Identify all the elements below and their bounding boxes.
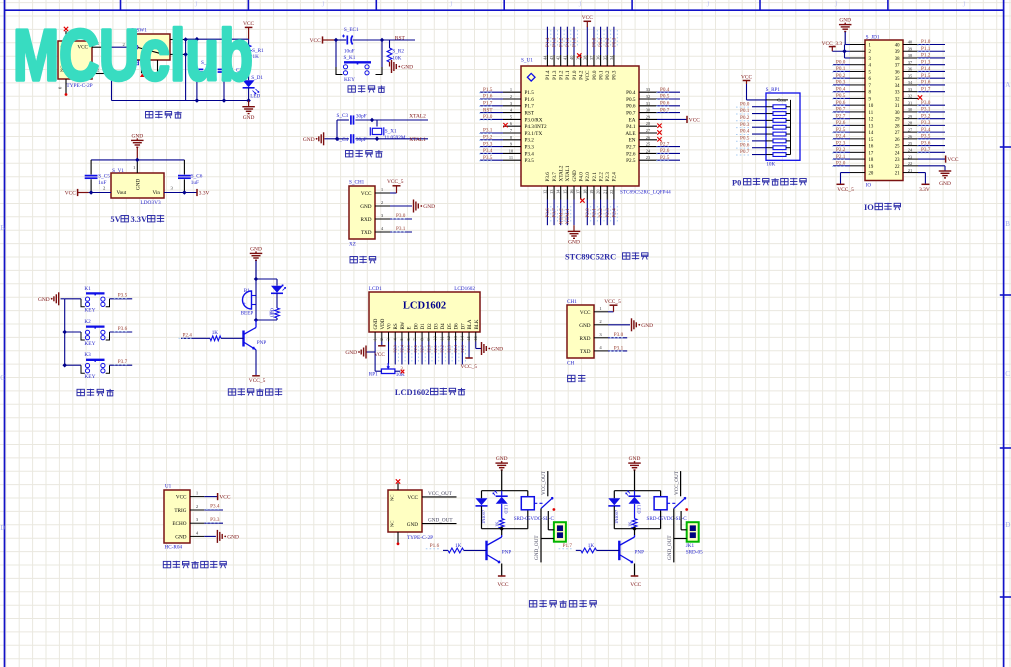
GND port LCD left (345, 346, 366, 359)
chip left wires and net labels (479, 87, 508, 161)
svg-text:XTAL2: XTAL2 (409, 114, 426, 120)
svg-text:KEY: KEY (84, 374, 95, 380)
TYPE-C pins (396, 479, 457, 545)
header pin numbers inside (869, 44, 901, 177)
svg-text:P0.5: P0.5 (626, 97, 636, 103)
svg-text:P2.0: P2.0 (426, 345, 431, 353)
svg-text:GND: GND (641, 323, 653, 329)
chip pin names (525, 70, 636, 182)
svg-text:3.3V: 3.3V (199, 191, 210, 197)
svg-text:P0.3: P0.3 (836, 80, 846, 86)
svg-text:S_U1: S_U1 (521, 58, 533, 64)
svg-text:P2.4: P2.4 (836, 134, 846, 140)
svg-text:VCC_OUT: VCC_OUT (674, 470, 680, 495)
svg-text:A: A (1005, 81, 1010, 89)
svg-text:3.3V: 3.3V (919, 187, 930, 193)
pin S_T1 2 (92, 68, 106, 74)
resistor S_R1 (246, 39, 264, 80)
svg-text:IO: IO (864, 203, 874, 212)
svg-text:30pF: 30pF (356, 114, 367, 120)
svg-text:P3.5: P3.5 (921, 134, 931, 140)
wire header pin21 to 3.3V (918, 173, 930, 194)
svg-text:VCC: VCC (361, 191, 372, 197)
pin S_SW1 1 (170, 48, 186, 54)
pin S_T1 top no-connect (64, 27, 68, 41)
svg-text:26: 26 (895, 138, 900, 143)
wire XTAL2 (370, 118, 428, 123)
svg-text:22: 22 (895, 165, 900, 170)
svg-text:P2.5: P2.5 (836, 127, 846, 133)
svg-text:13: 13 (453, 336, 458, 340)
svg-text:XTAL2: XTAL2 (559, 165, 565, 181)
relay switch contact (534, 470, 555, 511)
svg-text:GND: GND (568, 240, 580, 246)
svg-text:P2.0: P2.0 (585, 172, 591, 182)
svg-text:VCC: VCC (310, 38, 321, 44)
svg-text:P2.1: P2.1 (433, 345, 438, 353)
title alarm 声光报警电路 (228, 388, 282, 395)
chip GND port bottom (568, 225, 581, 246)
svg-text:P4.0: P4.0 (578, 172, 584, 182)
svg-text:1K: 1K (253, 54, 260, 60)
wire switch pin1 down (183, 39, 188, 100)
wire 5V top rail (91, 158, 184, 163)
header left stubs (850, 45, 865, 173)
chip bottom wires and net labels (545, 198, 618, 225)
svg-text:GND: GND (345, 350, 357, 356)
svg-text:21: 21 (602, 190, 607, 194)
title P0 pullup P0口上拉电阻电路 (732, 178, 807, 187)
svg-text:P1.6: P1.6 (483, 94, 493, 100)
svg-text:S_CH1: S_CH1 (349, 180, 365, 186)
svg-text:P0.0: P0.0 (592, 70, 598, 80)
net label P1.6 (426, 543, 440, 549)
title relay control 继电器控制电路 (529, 600, 596, 607)
GND port header right (939, 171, 952, 187)
svg-text:31: 31 (646, 101, 650, 106)
LED relay (626, 491, 642, 519)
svg-text:P2.2: P2.2 (598, 172, 604, 182)
svg-text:31: 31 (908, 100, 912, 105)
GND port relay (628, 456, 641, 491)
svg-text:22: 22 (609, 190, 614, 194)
svg-text:11: 11 (439, 336, 444, 340)
title ultrasonic 超声波测距模块 (163, 561, 227, 568)
svg-text:P3.3: P3.3 (921, 120, 931, 126)
svg-text:U1: U1 (165, 484, 172, 490)
svg-text:D: D (1005, 521, 1010, 529)
svg-text:TXD: TXD (580, 349, 591, 355)
svg-text:21: 21 (895, 172, 900, 177)
svg-text:GND: GND (579, 323, 590, 329)
svg-text:P0.3: P0.3 (612, 70, 618, 80)
svg-text:10: 10 (433, 336, 438, 340)
svg-text:B: B (1005, 220, 1010, 228)
svg-text:10K: 10K (392, 55, 401, 61)
svg-text:LED: LED (636, 505, 641, 514)
svg-text:30pF: 30pF (356, 137, 367, 143)
svg-text:J: J (322, 1, 325, 9)
svg-text:P2.5: P2.5 (660, 155, 670, 161)
resistor S_R2 10K (387, 40, 404, 67)
crystal S_X1 11.0592M (370, 120, 406, 141)
svg-text:P0.6: P0.6 (660, 101, 670, 107)
capacitor S_C1 (191, 39, 213, 100)
svg-text:V0: V0 (388, 323, 393, 330)
svg-text:VCC_OUT: VCC_OUT (541, 470, 547, 495)
svg-text:IO: IO (866, 183, 872, 189)
svg-text:P0.2: P0.2 (605, 37, 611, 47)
svg-text:P1.7: P1.7 (921, 86, 931, 92)
logo MCUclub (13, 16, 253, 96)
resistor network S_RP1 (766, 87, 800, 168)
svg-text:P2.4: P2.4 (612, 172, 618, 182)
svg-text:GND: GND (360, 204, 371, 210)
svg-text:P1.3: P1.3 (552, 37, 558, 47)
wire relay bottom rail (482, 510, 528, 535)
resistor 1K alarm base (181, 330, 244, 341)
svg-text:P2.6: P2.6 (413, 345, 418, 353)
wire key K1 left (65, 298, 81, 300)
svg-text:CH1: CH1 (567, 299, 577, 305)
svg-text:VCC_5: VCC_5 (461, 364, 478, 370)
VCC port pullup (741, 74, 766, 100)
svg-text:P0.3: P0.3 (740, 122, 750, 128)
svg-text:J: J (707, 1, 710, 9)
svg-text:P0.7: P0.7 (740, 149, 750, 155)
svg-text:MCUclub: MCUclub (13, 16, 253, 96)
svg-text:RXD: RXD (580, 336, 591, 342)
svg-text:ECHO: ECHO (172, 521, 186, 527)
header right stubs and numbers (903, 40, 918, 173)
wire relay top rail (482, 491, 528, 499)
chip right wires and net labels (656, 87, 700, 161)
svg-text:P1.5: P1.5 (483, 87, 493, 93)
svg-text:P3.7: P3.7 (921, 147, 931, 153)
chip VCC port top (582, 15, 593, 27)
svg-text:LCD1: LCD1 (369, 286, 382, 292)
title serial port 串口 (568, 375, 586, 382)
svg-text:P1.0: P1.0 (921, 39, 931, 45)
svg-text:14: 14 (869, 131, 874, 136)
svg-text:P1.4: P1.4 (921, 66, 931, 72)
svg-text:B: B (0, 224, 5, 232)
svg-text:P2.2: P2.2 (836, 147, 846, 153)
svg-text:10K: 10K (766, 162, 775, 168)
svg-text:34: 34 (895, 84, 900, 89)
svg-text:1K: 1K (269, 310, 274, 316)
chip top wires and net labels (545, 27, 618, 58)
svg-text:P1.7: P1.7 (563, 543, 573, 549)
resistor alarm vertical (269, 308, 280, 320)
svg-text:E: E (408, 326, 413, 329)
net label XTAL1 (409, 137, 426, 143)
svg-text:P1.5: P1.5 (921, 73, 931, 79)
svg-text:D0: D0 (414, 323, 419, 330)
svg-text:XTAL1: XTAL1 (565, 165, 571, 181)
svg-text:VCC: VCC (176, 495, 187, 501)
wire key K1 to P3.5 (110, 293, 133, 299)
resistor 1K relay (495, 519, 505, 529)
svg-text:P3.4: P3.4 (921, 127, 931, 133)
svg-text:GND: GND (175, 534, 186, 540)
wire relay GND_OUT (667, 509, 687, 563)
svg-text:S_K1: S_K1 (344, 55, 356, 61)
VCC port relay (630, 576, 641, 588)
svg-text:P1.5: P1.5 (525, 90, 535, 96)
svg-text:KEY: KEY (84, 308, 95, 314)
svg-text:P3.2: P3.2 (525, 138, 535, 144)
svg-text:S_V1: S_V1 (112, 168, 124, 174)
wire alarm top node (254, 277, 277, 282)
svg-text:P0.1: P0.1 (598, 70, 604, 80)
svg-text:P1.6: P1.6 (430, 543, 440, 549)
svg-text:P3.1/TX: P3.1/TX (525, 131, 543, 137)
svg-text:RS: RS (394, 323, 399, 329)
capacitor S_EC1 10uF (342, 27, 359, 55)
svg-text:GND: GND (303, 137, 315, 143)
VCC_5 port alarm (249, 376, 266, 384)
power GND port (242, 101, 255, 122)
svg-text:RW: RW (401, 321, 406, 329)
svg-text:P3.1: P3.1 (483, 128, 493, 134)
connector relay output terminal (554, 522, 566, 542)
svg-text:P0.1: P0.1 (836, 66, 846, 72)
title 5V to 3.3V 5V转3.3V电路 (110, 215, 164, 224)
svg-text:S_R2: S_R2 (392, 49, 404, 55)
svg-text:P0.1: P0.1 (598, 37, 604, 47)
svg-text:GND: GND (227, 534, 239, 540)
svg-text:D7: D7 (461, 323, 466, 330)
svg-text:12: 12 (446, 336, 451, 340)
svg-text:EA: EA (629, 117, 636, 123)
LCD pin names rotated (374, 318, 480, 329)
svg-text:VCC_5: VCC_5 (604, 299, 621, 305)
key S_K1 (336, 55, 382, 83)
power VCC port (243, 21, 254, 39)
switch actuator glyph (134, 61, 139, 65)
LCD wires (366, 342, 481, 372)
svg-text:D3: D3 (434, 323, 439, 330)
capacitor S_C4 30pF (337, 134, 373, 143)
svg-text:P1.3: P1.3 (552, 70, 558, 80)
wire key K3 to P3.7 (110, 359, 133, 365)
LCD pin stubs and numbers (372, 332, 478, 342)
svg-text:P2.3: P2.3 (393, 345, 398, 353)
svg-text:EN: EN (629, 138, 636, 144)
svg-text:1N4007: 1N4007 (481, 509, 486, 524)
VCC port reset (310, 36, 336, 44)
GND port download (414, 200, 436, 213)
GND port ultrasonic (217, 530, 239, 543)
svg-text:BLK: BLK (475, 319, 480, 329)
svg-text:GND: GND (374, 318, 379, 329)
svg-text:P0.2: P0.2 (605, 70, 611, 80)
svg-text:LCD1602: LCD1602 (395, 388, 429, 397)
svg-text:P3.0/RX: P3.0/RX (525, 117, 543, 123)
svg-text:VCC: VCC (585, 70, 591, 81)
svg-text:P0.5: P0.5 (660, 94, 670, 100)
svg-text:P2.0: P2.0 (585, 208, 591, 218)
svg-text:35: 35 (895, 77, 900, 82)
svg-text:P3.1: P3.1 (614, 345, 624, 351)
svg-text:D: D (0, 524, 5, 532)
svg-text:27: 27 (895, 131, 900, 136)
svg-text:2: 2 (510, 94, 512, 99)
svg-text:P1.2: P1.2 (558, 37, 564, 47)
GND port header top (839, 18, 852, 45)
svg-text:GND_OUT: GND_OUT (428, 518, 453, 524)
svg-text:P2.2: P2.2 (440, 345, 445, 353)
svg-text:P3.1: P3.1 (921, 107, 931, 113)
svg-text:P3.3: P3.3 (210, 517, 220, 523)
svg-text:BEEP: BEEP (241, 310, 254, 316)
svg-text:VCC: VCC (630, 582, 641, 588)
svg-text:P3.6: P3.6 (545, 172, 551, 182)
svg-text:S_C5: S_C5 (98, 173, 110, 179)
svg-text:P3.1: P3.1 (396, 226, 406, 232)
GND port crystal (303, 132, 337, 145)
svg-text:J: J (450, 1, 453, 9)
svg-text:S_JD1: S_JD1 (866, 35, 880, 41)
connector CH1 serial (567, 299, 594, 367)
wire reset left down (335, 40, 337, 67)
svg-text:P3.6: P3.6 (545, 208, 551, 218)
svg-text:32: 32 (895, 97, 900, 102)
potentiometer RP1 10K (369, 363, 405, 378)
svg-text:VCC: VCC (65, 191, 76, 197)
svg-text:P1.4: P1.4 (545, 37, 551, 47)
svg-text:40: 40 (895, 44, 900, 49)
svg-text:2: 2 (379, 338, 384, 340)
svg-text:VCC_5: VCC_5 (387, 179, 404, 185)
svg-text:GND: GND (136, 179, 142, 190)
capacitor S_C5 (85, 160, 111, 193)
svg-text:P2.6: P2.6 (626, 151, 636, 157)
svg-text:P3.4: P3.4 (483, 148, 493, 154)
relay switch contact (667, 470, 688, 511)
svg-text:NC: NC (390, 495, 395, 501)
title main chip STC89C52RC主芯片 (565, 252, 649, 261)
svg-text:P1.0: P1.0 (572, 37, 578, 47)
buzzer B1 BEEP (241, 288, 256, 316)
relay terminal labels JK1 SRD-05 (686, 543, 703, 556)
svg-text:C: C (0, 374, 5, 382)
svg-text:S_C6: S_C6 (191, 173, 203, 179)
svg-text:KEY: KEY (344, 77, 355, 83)
svg-text:S_R1: S_R1 (252, 48, 264, 54)
border column ticks (121, 0, 888, 10)
pullup wires and net labels P0.0-P0.7 (736, 101, 766, 155)
svg-text:GND: GND (491, 347, 503, 353)
svg-text:22: 22 (908, 161, 912, 166)
svg-text:41: 41 (562, 56, 567, 60)
svg-text:P2.6: P2.6 (836, 120, 846, 126)
svg-text:P2.3: P2.3 (836, 140, 846, 146)
capacitor S_C6 (178, 160, 203, 193)
diode 1N4007 (476, 498, 488, 528)
svg-text:SRD-05: SRD-05 (686, 550, 703, 556)
svg-text:P0.4: P0.4 (626, 90, 636, 96)
svg-text:P2.7: P2.7 (626, 145, 636, 151)
svg-text:P1.7: P1.7 (483, 101, 493, 107)
svg-text:RST: RST (483, 107, 493, 113)
relay coil (654, 497, 667, 510)
svg-text:D6: D6 (455, 323, 460, 330)
svg-text:RP1: RP1 (369, 372, 378, 378)
wire keys gnd bus (61, 299, 67, 368)
svg-text:LED: LED (504, 505, 509, 514)
svg-text:P3.0: P3.0 (614, 332, 624, 338)
resistor 1K relay base (443, 543, 487, 553)
transistor PNP relay (619, 535, 644, 563)
svg-text:P2.5: P2.5 (460, 345, 465, 353)
net label P1.7 (559, 543, 573, 549)
svg-text:P2.6: P2.6 (660, 148, 670, 154)
VCC port relay (497, 576, 508, 588)
svg-text:1N4007: 1N4007 (614, 509, 619, 524)
svg-text:P3.0: P3.0 (483, 114, 493, 120)
svg-text:P2.3: P2.3 (605, 172, 611, 182)
resistor 1K relay base (576, 543, 620, 553)
svg-text:3.3V: 3.3V (131, 215, 148, 224)
wire key K2 left (65, 331, 81, 333)
serial pins and wires (594, 299, 630, 351)
LCD1 module LCD1602 (369, 286, 480, 332)
svg-text:STC89C52RC: STC89C52RC (565, 253, 616, 262)
svg-text:P1.1: P1.1 (565, 37, 571, 47)
svg-text:P4.3/INT2: P4.3/INT2 (525, 124, 547, 130)
svg-text:NC: NC (390, 521, 395, 527)
LED S_D1 (243, 75, 264, 101)
svg-text:P2.4: P2.4 (399, 344, 404, 352)
GND port 5V block (131, 133, 144, 160)
svg-text:D1: D1 (421, 323, 426, 330)
svg-text:P3.2: P3.2 (921, 113, 931, 119)
svg-text:P3.3: P3.3 (525, 145, 535, 151)
svg-text:TRIG: TRIG (174, 508, 186, 514)
pin S_T1 bottom (65, 79, 68, 96)
svg-text:S_RP1: S_RP1 (766, 87, 781, 93)
svg-text:VCC: VCC (219, 495, 230, 501)
svg-text:P2.1: P2.1 (592, 208, 598, 218)
svg-text:P3.7: P3.7 (552, 172, 558, 182)
wire header rows 1-3 join (842, 45, 850, 58)
svg-text:LCD1602: LCD1602 (454, 286, 475, 292)
svg-text:VCC: VCC (580, 310, 591, 316)
svg-text:VCC_5: VCC_5 (249, 378, 266, 384)
svg-text:GND: GND (401, 65, 413, 71)
wire relay GND_OUT (534, 509, 554, 563)
svg-text:P2.1: P2.1 (592, 172, 598, 182)
wire relay top rail (614, 491, 660, 499)
svg-text:33: 33 (895, 91, 900, 96)
wire power bottom rail (112, 98, 251, 103)
svg-text:11: 11 (509, 155, 513, 160)
svg-text:1K: 1K (588, 543, 595, 549)
svg-text:1uF: 1uF (191, 180, 199, 186)
svg-text:VCC: VCC (741, 74, 752, 80)
title download port 下载口 (350, 256, 376, 263)
pin S_SW1 3 (170, 33, 186, 40)
regulator GND pin (133, 160, 137, 173)
svg-text:VCC: VCC (374, 352, 385, 358)
svg-text:ALE: ALE (625, 131, 635, 137)
connector S_CH1 download (349, 180, 375, 248)
key K2 (81, 319, 110, 347)
svg-text:Vout: Vout (117, 190, 127, 196)
svg-text:S_C4: S_C4 (337, 137, 349, 143)
